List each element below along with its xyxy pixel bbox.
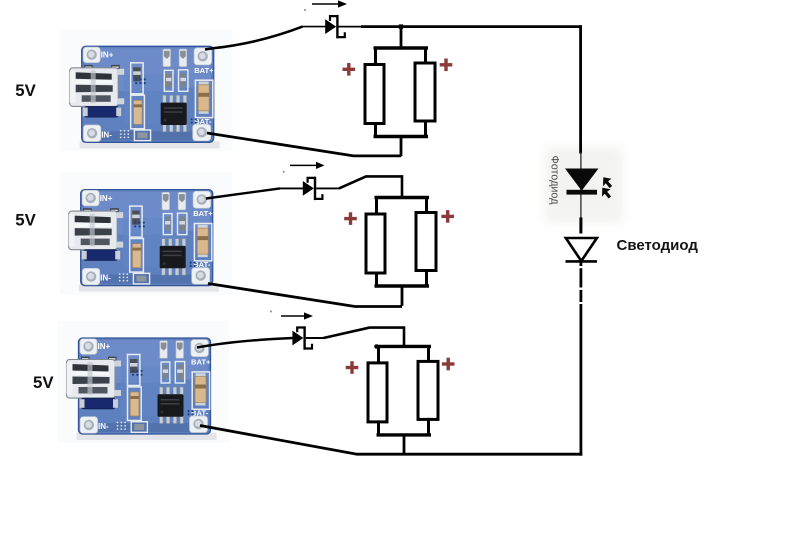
svg-text:Фотодиод: Фотодиод — [549, 156, 561, 206]
wire stub photodiode to LED — [579, 218, 582, 234]
battery pack B2 (two cells parallel) — [366, 198, 436, 306]
speck near D1 — [304, 9, 306, 11]
polarity + battery2 right — [441, 210, 454, 223]
wire module3 BAT- to bottom bus — [200, 426, 582, 455]
diode D1 (Schottky) — [325, 15, 345, 38]
junction dot battery3 rail — [374, 344, 379, 349]
wire module3 BAT+ to diode D3 — [197, 338, 293, 348]
charger module 3 (TP4056) — [58, 321, 230, 443]
battery pack B3 (two cells parallel) — [368, 346, 438, 454]
LED VD2 cathode bar — [566, 260, 598, 263]
photodiode background patch — [545, 147, 623, 223]
wire positive bus vertical (upper) — [579, 25, 582, 153]
wire battery1 tap — [400, 27, 403, 49]
gap artifacts in lower bus — [579, 266, 584, 268]
current arrow above D1 — [312, 0, 347, 7]
polarity + battery1 left — [343, 63, 356, 76]
speck near D3 arrow — [270, 311, 272, 313]
wire module2 BAT- to battery2 bottom — [208, 284, 402, 307]
wire module1 BAT+ to diode D1 — [205, 27, 303, 50]
speck near D2 — [283, 171, 285, 173]
wire D2 to battery2 tap — [316, 187, 340, 189]
polarity + battery1 right — [440, 59, 453, 72]
wire D1 to positive bus (top rail) — [339, 26, 363, 28]
charger module 2 (TP4056) — [60, 173, 232, 295]
wire D3 to battery3 tap — [306, 337, 325, 339]
wire module2 BAT+ to diode D2 — [206, 188, 280, 198]
junction node battery1 tap — [399, 24, 403, 28]
battery pack B1 (two cells parallel) — [365, 48, 435, 156]
polarity + battery2 left — [344, 212, 357, 225]
diode D2 (Schottky) — [303, 177, 323, 200]
charger module 1 (TP4056) — [61, 29, 233, 151]
svg-text:Светодиод: Светодиод — [617, 237, 699, 254]
photodiode VD1 triangle — [565, 169, 599, 191]
photodiode light arrow B — [602, 188, 611, 199]
wire module1 BAT- to battery1 bottom — [207, 133, 401, 156]
photodiode light arrow A — [603, 177, 612, 188]
polarity + battery3 left — [346, 361, 359, 374]
photodiode VD1 cathode bar — [567, 190, 598, 195]
svg-text:5V: 5V — [15, 211, 36, 230]
polarity + battery3 right — [442, 358, 455, 371]
svg-text:5V: 5V — [33, 373, 54, 392]
svg-text:5V: 5V — [15, 81, 36, 100]
current arrow above D2 — [290, 162, 325, 169]
diode D3 (Schottky) — [292, 326, 312, 349]
wire bus vertical (lower) — [580, 261, 583, 455]
LED VD2 triangle — [566, 238, 597, 261]
current arrow above D3 — [281, 312, 313, 319]
thin lead through photodiode — [580, 152, 582, 218]
